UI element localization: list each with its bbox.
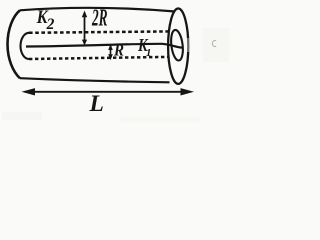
svg-text:2: 2 — [46, 16, 55, 33]
stray scan mark — [212, 40, 216, 46]
inner rod bottom dashed line — [29, 57, 168, 59]
svg-text:2R: 2R — [91, 5, 107, 32]
svg-text:1: 1 — [146, 47, 152, 59]
L dimension arrow — [22, 88, 195, 95]
R dimension arrow — [108, 44, 113, 60]
faint scan smudges — [2, 28, 229, 122]
axis line — [26, 44, 182, 48]
faded segment of outer right rim — [187, 38, 190, 52]
outer cylinder left end arc — [8, 10, 21, 78]
outer cylinder right end ellipse — [168, 9, 188, 84]
inner rod left end arc — [21, 33, 30, 59]
outer cylinder bottom edge — [20, 78, 170, 82]
inner rod right end ellipse — [170, 29, 185, 61]
svg-text:R: R — [113, 41, 124, 60]
2R dimension arrow — [82, 11, 87, 46]
outer cylinder top edge — [20, 8, 174, 11]
inner rod top dashed line — [29, 31, 170, 32]
svg-text:L: L — [89, 91, 104, 117]
